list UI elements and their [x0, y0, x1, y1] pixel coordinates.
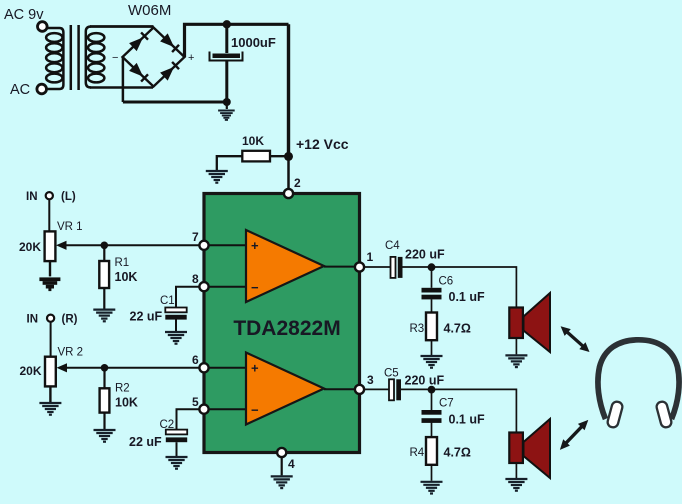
wire pin6 stub	[204, 367, 246, 369]
wire bottom rail	[123, 101, 227, 104]
capacitor C7	[422, 410, 442, 423]
ground C2	[166, 457, 188, 469]
speaker R	[509, 419, 550, 478]
wiper arrow VR1	[56, 241, 67, 250]
ground R1	[93, 310, 115, 322]
resistor R4	[426, 437, 437, 465]
pin 6	[199, 363, 208, 372]
svg-text:20K: 20K	[19, 240, 41, 254]
ground R2	[94, 430, 116, 442]
svg-text:IN: IN	[27, 314, 39, 326]
wire wiper VR1 to pin7	[60, 244, 199, 246]
svg-text:C5: C5	[384, 368, 399, 380]
wire R4 to ground	[431, 465, 433, 481]
capacitor 1000uF	[210, 52, 243, 61]
ground speaker L	[505, 355, 527, 367]
wire pin8 to C1	[176, 287, 199, 308]
pin 5	[199, 405, 208, 414]
svg-text:4: 4	[288, 457, 295, 471]
wire out U1B	[324, 388, 354, 390]
headphones	[598, 340, 679, 429]
wire C6 to R3	[431, 299, 433, 312]
wire pin5 to C2	[177, 409, 200, 429]
terminal IN R	[47, 315, 54, 322]
wire secondary bottom to bridge AC node	[90, 86, 153, 89]
svg-text:22 uF: 22 uF	[130, 310, 163, 324]
wire junction to speaker R	[432, 389, 517, 432]
svg-text:R2: R2	[115, 383, 130, 395]
svg-text:4.7Ω: 4.7Ω	[444, 322, 471, 336]
resistor 10K pullup	[242, 151, 270, 162]
wire C1 to ground	[175, 319, 177, 331]
wire junction to speaker L	[432, 267, 517, 308]
svg-text:3: 3	[367, 373, 374, 387]
ground pin4	[271, 476, 293, 488]
svg-text:R4: R4	[410, 447, 425, 459]
wire C5 to junction	[401, 388, 432, 390]
pin 1	[355, 262, 364, 271]
arrow speaker L to headphones	[561, 326, 590, 352]
svg-text:W06M: W06M	[128, 2, 171, 19]
wire wiper VR2 to pin6	[61, 367, 200, 369]
resistor R3	[426, 313, 437, 341]
ground C1	[165, 332, 187, 344]
capacitor C1	[165, 308, 186, 320]
pin 3	[355, 385, 364, 394]
svg-text:220 uF: 220 uF	[405, 248, 445, 262]
wire rail to pin 2	[287, 156, 290, 190]
wire resistor to ground	[217, 156, 243, 170]
bridge rectifier W06M body	[123, 28, 185, 87]
wire out U1A	[324, 266, 354, 268]
terminal AC bottom	[37, 84, 47, 94]
wire pin4 to ground	[281, 457, 283, 475]
svg-text:5: 5	[192, 395, 199, 409]
wire junction to C6	[431, 267, 433, 288]
resistor R2	[100, 388, 110, 412]
svg-text:4.7Ω: 4.7Ω	[444, 446, 471, 460]
wire junction to C7	[431, 389, 433, 410]
wire bridge - down	[122, 57, 125, 102]
wire junction to R2	[103, 368, 105, 389]
wire C7 to R4	[431, 422, 433, 438]
wire pin5 stub	[204, 408, 246, 410]
wiper arrow VR2	[57, 363, 68, 372]
wire resistor to rail	[270, 155, 289, 157]
wire pin8 stub	[204, 286, 246, 288]
op-amp U1A	[246, 230, 324, 302]
node junction out L	[428, 263, 436, 271]
ground filter	[218, 111, 235, 120]
pin 7	[199, 241, 208, 250]
capacitor C4	[391, 257, 403, 278]
node junction bottom rail	[223, 98, 231, 106]
wire C4 to junction	[403, 266, 432, 268]
wire VR1 to ground	[49, 261, 51, 276]
svg-text:VR 2: VR 2	[58, 347, 84, 359]
svg-text:2: 2	[294, 176, 301, 190]
svg-text:0.1 uF: 0.1 uF	[449, 290, 485, 304]
svg-text:C4: C4	[385, 240, 400, 252]
svg-text:1000uF: 1000uF	[231, 35, 276, 50]
wire C2 to ground	[176, 442, 178, 456]
svg-text:VR 1: VR 1	[57, 221, 83, 233]
wire R1 to ground	[103, 288, 105, 309]
ground R4	[421, 482, 443, 494]
svg-text:−: −	[251, 280, 259, 295]
svg-text:0.1 uF: 0.1 uF	[449, 413, 485, 427]
power rail +12V	[287, 24, 290, 156]
svg-text:20K: 20K	[20, 364, 42, 378]
svg-text:R1: R1	[115, 257, 130, 269]
svg-text:+12 Vcc: +12 Vcc	[296, 136, 349, 152]
diode D2	[160, 33, 179, 52]
svg-text:AC 9v: AC 9v	[4, 7, 44, 23]
svg-text:+: +	[188, 52, 194, 64]
wire R3 to ground	[431, 340, 433, 355]
wire junction to ground	[226, 102, 228, 109]
potentiometer VR2	[45, 357, 56, 387]
node junction out R	[428, 386, 436, 394]
wire secondary top to bridge	[90, 25, 154, 28]
pin 2	[284, 189, 293, 198]
ground VR2	[39, 403, 61, 415]
ground VR1 solid	[39, 277, 60, 291]
svg-text:C7: C7	[439, 398, 454, 410]
wire IN R to VR2	[50, 322, 52, 357]
svg-text:(R): (R)	[62, 314, 78, 326]
capacitor C2	[166, 430, 187, 443]
wire VR2 to ground	[49, 386, 51, 402]
capacitor C6	[422, 288, 442, 300]
svg-text:6: 6	[192, 353, 199, 367]
diode D4	[160, 62, 179, 81]
svg-text:IN: IN	[26, 191, 38, 203]
wire pin1 to C4	[364, 266, 391, 268]
wire C filter to bottom rail	[225, 61, 228, 103]
svg-text:C1: C1	[160, 295, 175, 307]
op-amp U1B	[246, 353, 324, 425]
diode D3	[129, 63, 148, 82]
node junction rail pin2	[284, 152, 293, 161]
wire IN L to VR1	[48, 200, 50, 232]
ground speaker R	[505, 479, 527, 491]
svg-text:TDA2822M: TDA2822M	[233, 317, 340, 340]
wire speaker R to ground	[515, 464, 517, 479]
svg-text:AC: AC	[10, 82, 30, 98]
resistor R1	[99, 261, 109, 288]
svg-text:−: −	[112, 52, 118, 64]
potentiometer VR1	[45, 231, 56, 261]
node junction top rail	[223, 20, 231, 28]
pin 8	[199, 282, 208, 291]
wire pin7 stub	[204, 244, 246, 246]
arrow speaker R to headphones	[560, 420, 588, 450]
diode D1	[129, 32, 148, 51]
node junction R2	[101, 364, 109, 372]
svg-text:10K: 10K	[115, 396, 138, 410]
terminal AC top	[38, 22, 48, 32]
svg-text:8: 8	[192, 272, 199, 286]
wire pin3 to C5	[364, 388, 389, 390]
node junction R1	[101, 242, 109, 250]
svg-text:7: 7	[192, 230, 199, 244]
svg-text:10K: 10K	[115, 270, 138, 284]
svg-text:+: +	[251, 361, 259, 376]
wire R2 to ground	[103, 413, 105, 429]
svg-text:(L): (L)	[61, 191, 76, 203]
wire speaker L to ground	[515, 338, 517, 354]
wire junction to R1	[103, 245, 105, 261]
transformer T1 secondary winding	[86, 27, 105, 88]
pin 4	[277, 448, 286, 457]
svg-text:−: −	[251, 403, 259, 418]
transformer T1 primary winding	[46, 28, 63, 89]
wire junction to C filter	[225, 24, 228, 53]
terminal IN L	[46, 192, 53, 199]
speaker L	[509, 293, 550, 352]
svg-text:22 uF: 22 uF	[129, 435, 162, 449]
svg-text:1: 1	[367, 250, 374, 264]
ground R3	[421, 356, 443, 368]
wire bridge + to top rail	[185, 24, 289, 57]
transformer core	[71, 25, 79, 90]
capacitor C5	[389, 379, 401, 400]
IC U1 TDA2822M body	[204, 194, 360, 453]
svg-text:R3: R3	[410, 323, 425, 335]
svg-text:C6: C6	[439, 276, 454, 288]
ground 10K	[206, 171, 228, 183]
svg-text:220 uF: 220 uF	[405, 374, 445, 388]
svg-text:10K: 10K	[242, 134, 264, 148]
svg-text:+: +	[251, 238, 259, 253]
